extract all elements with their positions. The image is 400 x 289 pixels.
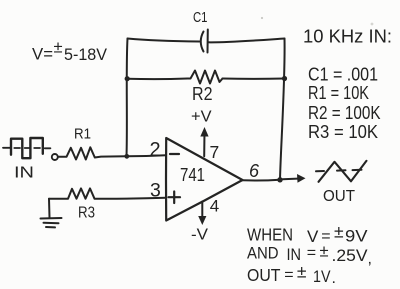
svg-text:AND: AND	[247, 244, 279, 263]
svg-text:+V: +V	[191, 109, 212, 126]
svg-text:,: ,	[368, 251, 372, 268]
svg-text:OUT: OUT	[323, 188, 356, 205]
svg-text:±: ±	[320, 242, 329, 260]
svg-text:V=: V=	[32, 45, 53, 64]
svg-text:6: 6	[249, 161, 260, 181]
svg-text:5-18V: 5-18V	[64, 46, 107, 64]
svg-text:-V: -V	[191, 227, 208, 244]
svg-text:±: ±	[334, 222, 344, 242]
svg-text:9V: 9V	[345, 227, 368, 246]
svg-text:4: 4	[210, 197, 219, 216]
svg-text:R1: R1	[74, 126, 91, 143]
svg-text:IN: IN	[14, 165, 34, 182]
svg-text:10 KHz IN:: 10 KHz IN:	[303, 26, 392, 46]
svg-text:1V: 1V	[313, 267, 331, 286]
svg-text:R1 = 10K: R1 = 10K	[308, 83, 369, 103]
svg-text:=: =	[284, 266, 293, 283]
svg-text:C1: C1	[193, 9, 208, 26]
svg-text:±: ±	[297, 262, 307, 282]
svg-text:.25V: .25V	[332, 246, 369, 265]
svg-text:C1 = .001: C1 = .001	[308, 65, 378, 85]
svg-text:=: =	[307, 245, 316, 262]
svg-text:±: ±	[54, 39, 63, 57]
svg-text:OUT: OUT	[247, 265, 281, 285]
svg-text:741: 741	[180, 164, 205, 185]
svg-text:WHEN: WHEN	[247, 225, 293, 245]
svg-text:.: .	[332, 270, 336, 287]
svg-text:R3: R3	[78, 205, 95, 222]
svg-text:R3 = 10K: R3 = 10K	[308, 122, 378, 142]
svg-text:7: 7	[210, 142, 220, 162]
svg-text:R2: R2	[192, 84, 213, 104]
svg-text:V: V	[307, 227, 319, 246]
svg-text:3: 3	[150, 180, 161, 202]
svg-text:2: 2	[150, 139, 161, 161]
svg-text:R2 = 100K: R2 = 100K	[308, 103, 381, 123]
